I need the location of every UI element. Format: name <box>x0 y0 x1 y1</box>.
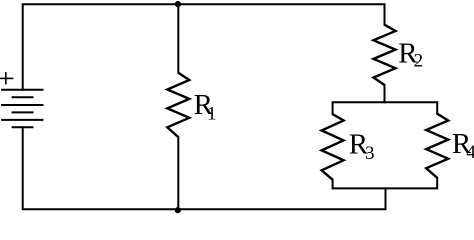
svg-text:3: 3 <box>365 143 375 164</box>
svg-text:1: 1 <box>207 104 217 125</box>
svg-text:2: 2 <box>414 51 424 72</box>
svg-text:4: 4 <box>466 142 474 163</box>
